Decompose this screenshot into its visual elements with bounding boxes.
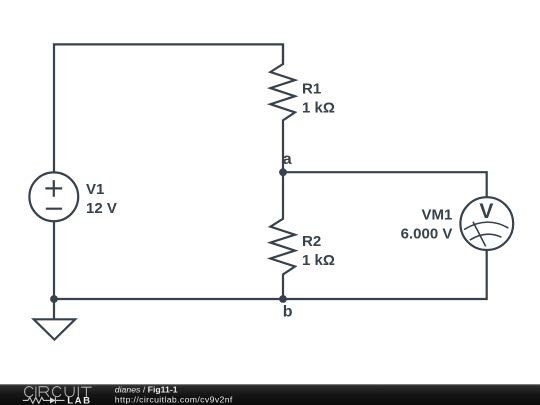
svg-text:6.000 V: 6.000 V: [401, 226, 453, 243]
svg-text:a: a: [283, 151, 292, 168]
svg-text:dianes / Fig11-1: dianes / Fig11-1: [115, 385, 178, 395]
svg-text:R2: R2: [302, 233, 321, 250]
svg-text:V: V: [479, 200, 493, 223]
svg-text:1 kΩ: 1 kΩ: [302, 100, 335, 117]
svg-text:12 V: 12 V: [86, 200, 117, 217]
svg-text:b: b: [283, 303, 293, 320]
svg-text:LAB: LAB: [67, 396, 92, 405]
svg-text:R1: R1: [302, 80, 321, 97]
svg-text:http://circuitlab.com/cv9v2nf: http://circuitlab.com/cv9v2nf: [115, 394, 233, 404]
svg-text:1 kΩ: 1 kΩ: [302, 252, 335, 269]
svg-text:V1: V1: [86, 181, 104, 198]
svg-text:VM1: VM1: [422, 206, 453, 223]
